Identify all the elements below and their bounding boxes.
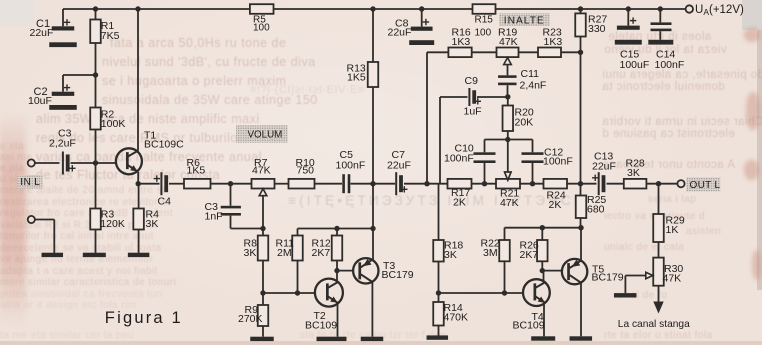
svg-text:3K: 3K <box>244 247 257 259</box>
svg-text:3K: 3K <box>146 218 159 230</box>
svg-text:10uF: 10uF <box>28 95 52 107</box>
svg-text:680: 680 <box>587 204 605 216</box>
svg-text:UA(+12V): UA(+12V) <box>695 4 744 17</box>
svg-text:2K: 2K <box>453 197 466 209</box>
svg-text:BC109: BC109 <box>305 319 337 331</box>
svg-text:INALTE: INALTE <box>504 15 545 26</box>
svg-text:3M: 3M <box>483 247 498 259</box>
svg-text:22uF: 22uF <box>388 27 412 39</box>
svg-text:R15: R15 <box>475 14 494 25</box>
svg-text:2K: 2K <box>549 199 562 211</box>
svg-text:2,4nF: 2,4nF <box>520 80 547 92</box>
svg-text:22uF: 22uF <box>592 161 616 173</box>
svg-text:1uF: 1uF <box>464 106 482 118</box>
svg-text:1nF: 1nF <box>205 210 223 222</box>
svg-text:1K: 1K <box>666 224 679 236</box>
svg-text:47K: 47K <box>252 165 271 177</box>
svg-text:3K: 3K <box>444 249 457 261</box>
svg-text:100nF: 100nF <box>543 155 573 167</box>
svg-text:BC179: BC179 <box>592 272 624 284</box>
svg-text:C4: C4 <box>158 196 172 208</box>
svg-text:100nF: 100nF <box>655 59 685 71</box>
svg-text:100: 100 <box>253 23 270 34</box>
svg-text:100K: 100K <box>101 118 126 130</box>
svg-text:120K: 120K <box>100 218 125 230</box>
svg-text:470K: 470K <box>444 312 469 324</box>
svg-text:BC109: BC109 <box>513 319 545 331</box>
svg-text:BC179: BC179 <box>382 269 414 281</box>
svg-text:100nF: 100nF <box>336 160 366 172</box>
svg-text:Figura 1: Figura 1 <box>105 309 183 327</box>
svg-text:C11: C11 <box>521 68 540 80</box>
svg-text:2K7: 2K7 <box>312 247 331 259</box>
svg-text:2K7: 2K7 <box>520 249 539 261</box>
svg-text:1K5: 1K5 <box>347 72 366 84</box>
svg-text:1K5: 1K5 <box>187 165 206 177</box>
svg-text:OUT L: OUT L <box>690 180 721 191</box>
svg-text:3K: 3K <box>627 167 640 179</box>
svg-text:100uF: 100uF <box>620 59 650 71</box>
svg-text:IN L: IN L <box>20 177 40 188</box>
svg-text:1K3: 1K3 <box>544 36 563 48</box>
svg-text:100nF: 100nF <box>444 153 474 165</box>
svg-text:47K: 47K <box>499 36 518 48</box>
svg-text:7K5: 7K5 <box>101 30 120 42</box>
svg-text:750: 750 <box>297 165 315 177</box>
svg-text:20K: 20K <box>515 117 534 129</box>
svg-text:2M: 2M <box>277 247 292 259</box>
svg-text:1K3: 1K3 <box>452 36 471 48</box>
svg-text:VOLUM: VOLUM <box>248 129 283 140</box>
svg-text:47K: 47K <box>500 197 519 209</box>
svg-text:BC109C: BC109C <box>144 139 184 151</box>
svg-text:22uF: 22uF <box>387 160 411 172</box>
svg-text:22uF: 22uF <box>30 27 54 39</box>
svg-text:47K: 47K <box>663 273 682 285</box>
svg-text:C9: C9 <box>465 75 479 87</box>
svg-text:270K: 270K <box>238 313 263 325</box>
svg-text:La canal stanga: La canal stanga <box>618 319 690 330</box>
svg-text:100: 100 <box>475 27 492 38</box>
svg-text:2,2uF: 2,2uF <box>49 138 76 150</box>
svg-text:330: 330 <box>588 23 606 35</box>
